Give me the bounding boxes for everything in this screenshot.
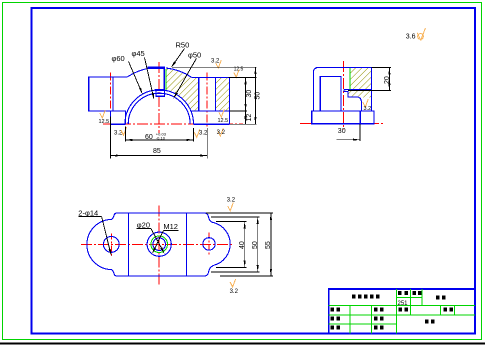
plan view boss edge line left — [127, 213, 129, 276]
svg-text:20: 20 — [384, 76, 391, 84]
front view left stub right edge — [112, 77, 114, 111]
front view right stub right edge — [229, 77, 231, 124]
svg-text:55: 55 — [265, 241, 272, 249]
roughness 3.2 at bottom right notch — [194, 129, 200, 137]
plan view left lug top step — [112, 213, 117, 219]
svg-text:M12: M12 — [163, 222, 178, 231]
row3 left chars — [331, 317, 335, 321]
svg-text:2-φ14: 2-φ14 — [78, 208, 98, 217]
plan view phi20 green circle — [151, 236, 168, 253]
leader phi60 — [129, 62, 142, 93]
plan view center boss outer circle — [147, 232, 171, 256]
svg-text:12: 12 — [246, 114, 253, 122]
svg-text:12.5: 12.5 — [218, 118, 229, 124]
side view red horizontal centerline — [300, 123, 383, 125]
side view bottom band divider — [359, 111, 361, 124]
svg-text:30: 30 — [246, 90, 253, 98]
dimension 30 (side view bottom) — [359, 124, 361, 141]
title grid H3 — [329, 323, 397, 325]
row2 left chars — [331, 308, 335, 312]
front view top edge right section — [192, 76, 230, 78]
front view outer dome arc R50 — [127, 68, 152, 77]
title grid H2 — [329, 314, 475, 316]
side view red vertical centerline — [342, 61, 344, 130]
dimension 50 (plan right) — [211, 216, 260, 218]
leader R50 arrow — [171, 61, 176, 67]
roughness 3.2 lower right — [218, 128, 224, 136]
leader phi50 — [174, 58, 197, 97]
dimension 12 (right side) — [245, 111, 247, 118]
drawing number chars — [436, 296, 440, 300]
svg-text:50: 50 — [252, 241, 259, 249]
title grid V3 — [396, 289, 398, 333]
plan view plate bottom edge — [117, 275, 205, 277]
front view phi60 bore arc — [125, 90, 194, 124]
plan view right lug arc — [214, 223, 231, 266]
side view bottom band rectangle — [312, 111, 374, 124]
row4 mid chars — [374, 326, 378, 330]
side view roughness mark — [363, 99, 369, 107]
title grid V5 — [421, 289, 423, 306]
front view hole bottom edge and section step edge — [191, 110, 230, 112]
plan view red centerline left hole — [110, 234, 112, 256]
svg-text:-0.10: -0.10 — [156, 136, 166, 141]
svg-text:3.2: 3.2 — [227, 198, 236, 204]
plan view red vertical centerline — [158, 206, 160, 286]
title grid V7 — [453, 306, 455, 315]
front view outline: left stub rectangle — [89, 77, 126, 124]
front view red centerline right lug hole — [206, 73, 208, 128]
svg-text:3.6: 3.6 — [406, 34, 416, 41]
title name characters — [352, 295, 356, 299]
side view stepped profile below hatch — [344, 90, 361, 112]
svg-text:40: 40 — [239, 241, 246, 249]
svg-text:φ50: φ50 — [188, 51, 201, 60]
row2 right chars — [444, 308, 448, 312]
front view phi14 hole right edge (section) — [214, 77, 216, 111]
front view bottom edge of plate — [111, 123, 126, 125]
title grid V4 — [409, 289, 411, 315]
svg-text:3.2: 3.2 — [230, 289, 239, 295]
plan view left lug bottom step — [112, 270, 117, 276]
leader R50 — [172, 49, 185, 67]
plan view left hole phi14 — [103, 237, 119, 253]
dimension 85 (bottom) — [110, 117, 112, 159]
side view hatched upper-right block — [350, 68, 371, 90]
leader phi50 arrow — [173, 92, 178, 99]
leader phi45 — [145, 58, 154, 99]
dimension 50 (right side) — [172, 66, 256, 68]
leader phi45 arrow — [152, 93, 155, 100]
front view thread hole notch — [156, 90, 164, 96]
cell char — [398, 291, 402, 295]
dimension 55 (plan right) — [206, 212, 273, 214]
svg-text:φ60: φ60 — [112, 54, 125, 63]
title grid H0 — [397, 296, 422, 298]
row3 mid chars — [374, 317, 378, 321]
front view: hatched section area right of axis — [166, 68, 198, 111]
dim 30 arrows — [245, 104, 247, 111]
front view red centerline left lug hole — [109, 73, 111, 117]
plan view left lug arc — [87, 219, 112, 269]
front view phi14 hole left edge (section) — [198, 77, 200, 111]
front view thread hole vertical (section edge) — [163, 68, 165, 90]
roughness 12.5 under left stub — [100, 110, 106, 118]
svg-text:φ20: φ20 — [137, 220, 150, 229]
dimension 30 (right side) — [229, 76, 257, 78]
plan view right lug bottom step — [205, 265, 214, 276]
title grid H1 — [329, 305, 475, 307]
svg-text:12.5: 12.5 — [99, 119, 110, 125]
dimension 20 (side view right) — [371, 66, 391, 68]
front view top edge left of stub to arc — [89, 76, 128, 78]
front view red horizontal centerline — [103, 123, 243, 125]
svg-text:R50: R50 — [176, 41, 190, 50]
svg-text:3.2: 3.2 — [217, 130, 226, 136]
black bottom screen edge line — [0, 342, 485, 344]
front view flat milled top (thick cut face) — [148, 67, 165, 69]
side view hatch block bottom edge — [344, 89, 372, 91]
side view inner rectangle lines — [320, 77, 341, 112]
side view hatched lower portion — [345, 90, 372, 97]
svg-text:3.2: 3.2 — [199, 130, 208, 136]
plan view right lug top step — [205, 213, 214, 223]
row2 cell chars — [399, 308, 403, 312]
svg-text:60: 60 — [145, 134, 153, 141]
side view green thread line — [349, 68, 351, 90]
leader phi20 — [151, 229, 164, 253]
front view red vertical centerline (axis) — [158, 62, 160, 133]
side view outer body outline — [313, 68, 371, 112]
plan view boss edge line right — [186, 213, 188, 276]
plan view red horizontal centerline — [81, 243, 233, 245]
roughness 3.2 bottom of plan view — [230, 279, 236, 287]
material field chars — [425, 320, 429, 324]
dimension 40 (plan right) — [216, 220, 247, 222]
front view phi50 bore arc — [128, 93, 190, 124]
plan view red centerline right hole — [208, 233, 210, 257]
svg-text:50: 50 — [255, 92, 262, 100]
front view notch top thick edge — [155, 89, 165, 91]
plan view M12 circle — [153, 238, 166, 251]
title grid V2 — [371, 306, 373, 334]
front view: hatched right stub section — [215, 77, 229, 111]
row4 left chars — [331, 326, 335, 330]
svg-text:φ45: φ45 — [132, 49, 145, 58]
svg-text:251: 251 — [398, 301, 409, 307]
title grid V1 — [349, 306, 351, 334]
front view green thread line M12 — [165, 69, 167, 90]
roughness 12.5 right bottom band — [219, 109, 225, 117]
svg-text:85: 85 — [153, 148, 161, 155]
front view left bottom corner edge — [110, 111, 112, 124]
leader 2-phi14 — [102, 217, 111, 255]
svg-text:30: 30 — [338, 128, 346, 135]
title grid V6 — [439, 306, 441, 315]
svg-text:3.2: 3.2 — [364, 106, 372, 112]
title block outer rectangle — [329, 289, 475, 333]
leader phi60 arrow — [139, 88, 143, 95]
plan view plate top edge — [117, 212, 205, 214]
dimension 60 with tolerance (bottom) — [124, 127, 126, 142]
row2 mid chars — [374, 308, 378, 312]
plan view right hole phi14 — [203, 238, 215, 250]
leader M12 — [153, 231, 164, 253]
